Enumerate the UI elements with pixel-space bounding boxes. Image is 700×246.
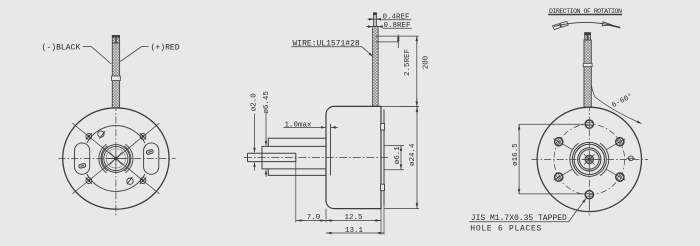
svg-text:7.0: 7.0: [307, 214, 321, 222]
dim 0.8REF leader: [366, 26, 382, 28]
svg-text:(+)RED: (+)RED: [151, 44, 180, 53]
outer circle top edge across wire: [112, 107, 120, 109]
svg-text:HOLE 6 PLACES: HOLE 6 PLACES: [470, 225, 542, 234]
svg-text:200: 200: [423, 55, 431, 69]
radial spoke upper-right: [607, 139, 626, 150]
hub bearing ring inner: [104, 146, 128, 170]
svg-text:WIRE:UL1571#28: WIRE:UL1571#28: [293, 40, 360, 49]
end bell back line: [383, 110, 385, 206]
label JIS underline: [469, 221, 568, 223]
svg-text:2.5REF: 2.5REF: [404, 49, 412, 76]
radial spoke lower-right: [607, 169, 626, 180]
header underline: [548, 14, 622, 16]
svg-text:ø6.1: ø6.1: [394, 146, 402, 165]
svg-text:13.1: 13.1: [345, 227, 364, 235]
dim 1.0max underline-leader: [284, 126, 319, 128]
right terminal stadium: [144, 143, 159, 174]
bottom hole centerline overshoot: [588, 200, 590, 210]
svg-text:1.0max: 1.0max: [285, 122, 313, 130]
shaft bottom line: [248, 161, 296, 163]
extension line wire bottom at can top: [400, 105, 419, 107]
extension line bushing: [295, 153, 297, 222]
back view outer circle: [537, 107, 641, 211]
hub ring inner: [580, 150, 600, 170]
label WIRE underline: [291, 46, 362, 48]
dim 6-60 arc: [592, 86, 642, 124]
crimp tab upper: [381, 124, 385, 131]
back view vertical centerline: [588, 104, 590, 218]
hub C-arc right inner: [124, 146, 130, 171]
screw top-right: [140, 133, 146, 139]
hub bore circle: [106, 149, 125, 168]
dim phi16.5 extension bottom: [519, 193, 585, 195]
back circle top edge across wire: [584, 106, 592, 108]
bearing boss front: [262, 146, 326, 169]
rotation arrow arc: [554, 22, 620, 27]
lead wire sleeve (front view): [112, 43, 119, 108]
dim 12.5 line: [326, 220, 381, 222]
dim 0.4REF leader: [368, 18, 381, 20]
hub C-arc left outer: [99, 144, 107, 172]
dim 0.4REF underline: [381, 19, 412, 21]
dim 2.5REF line: [397, 35, 399, 49]
dim 200 line: [416, 36, 418, 106]
extension line can front: [325, 209, 327, 223]
dim phi24.4 extension top: [381, 105, 419, 107]
wire tip black: [112, 36, 115, 44]
dim phi6.45 line: [265, 114, 267, 178]
extension line bell back: [383, 205, 385, 235]
tapped hole bottom: [585, 191, 593, 199]
svg-text:(-)BLACK: (-)BLACK: [42, 44, 81, 53]
svg-text:0.8REF: 0.8REF: [384, 22, 411, 30]
shaft knurl spokes: [582, 152, 597, 167]
radial spoke upper-left: [553, 139, 572, 150]
hub ring mid: [578, 148, 601, 171]
front view inner housing circle top arc: [87, 126, 145, 143]
side view wire bare tip: [374, 13, 377, 27]
label JIS leader: [569, 199, 586, 222]
vent hole lower (slashed): [127, 177, 133, 184]
tapped hole top: [585, 120, 593, 128]
tapped hole lower-left: [553, 171, 564, 182]
svg-text:ø16.5: ø16.5: [512, 143, 520, 166]
dim 13.1 line: [326, 232, 384, 234]
dim phi6.1 line: [400, 146, 402, 170]
svg-text:ø6.45: ø6.45: [263, 91, 271, 114]
hub bearing ring outer: [102, 145, 130, 173]
left terminal slot: [79, 163, 86, 168]
front view vertical centerline: [115, 104, 117, 216]
hub C-arc right: [600, 143, 609, 175]
front view diagonal centerline B: [72, 123, 159, 194]
front view diagonal centerline A: [72, 123, 159, 194]
hub ring outer: [572, 142, 606, 176]
dim 7.0 line: [296, 220, 326, 222]
screw bottom-left: [86, 177, 92, 183]
back wire tip 1: [585, 33, 588, 40]
front view horizontal centerline: [59, 158, 176, 160]
svg-text:12.5: 12.5: [344, 214, 363, 222]
screw top-left: [86, 133, 92, 139]
bolt circle (dash-dot): [554, 124, 625, 195]
shaft tip end: [247, 153, 249, 161]
side view lead wire sleeve: [373, 27, 379, 106]
dim phi2.0 line: [254, 114, 256, 171]
label RED leader: [120, 47, 148, 62]
extension line can back: [380, 209, 382, 235]
index hole right: [628, 156, 633, 161]
bearing flange front: [268, 138, 326, 175]
hub C-arc left: [570, 143, 579, 175]
side view horizontal centerline: [244, 157, 390, 159]
dim phi6.1 extension top: [384, 145, 404, 147]
dim phi24.4 extension bottom: [384, 208, 419, 210]
svg-text:ø24.4: ø24.4: [409, 143, 417, 166]
extension line B: [376, 41, 399, 43]
rotation arrow left ribbon: [553, 22, 569, 30]
dim 0.8REF underline: [383, 27, 412, 29]
wire tip red: [117, 36, 120, 44]
shaft center dot: [115, 157, 118, 160]
hub ring outer2: [574, 144, 604, 174]
bushing face line: [295, 153, 297, 161]
screw bottom-right: [140, 177, 146, 183]
back view horizontal centerline: [532, 158, 649, 160]
svg-text:DIRECTION OF ROTATION: DIRECTION OF ROTATION: [549, 8, 622, 15]
shaft end star spokes: [107, 150, 125, 168]
tapped hole upper-right: [614, 136, 625, 147]
dim phi6.1 extension bottom: [384, 169, 404, 171]
crimp tab lower: [381, 184, 385, 191]
hub C-arc right outer: [125, 144, 133, 172]
radial spoke lower-left: [553, 169, 572, 180]
label BLACK leader: [83, 47, 111, 65]
right terminal slot: [146, 149, 153, 154]
tapped hole upper-left: [553, 136, 564, 147]
extension line A (wire top): [376, 35, 419, 37]
tapped hole lower-right: [614, 171, 625, 182]
back view lead wire sleeve: [584, 40, 591, 107]
svg-text:ø2.0: ø2.0: [250, 93, 258, 112]
shaft top line: [248, 152, 296, 154]
svg-text:JIS M1.7X0.35 TAPPED: JIS M1.7X0.35 TAPPED: [471, 214, 567, 223]
wire sleeve band: [112, 76, 121, 81]
shaft cross-section: [585, 155, 594, 164]
motor can body: [326, 106, 381, 208]
left terminal stadium: [75, 143, 90, 174]
back wire tip 2: [588, 33, 591, 40]
front view motor outer circle: [63, 108, 169, 209]
dim phi16.5 line: [518, 124, 520, 194]
internal step line: [330, 124, 332, 175]
vent hole upper (slashed): [98, 131, 105, 139]
index hole centerline: [627, 157, 635, 159]
rotation arrow right tip: [602, 22, 621, 28]
dim phi16.5 extension top: [519, 123, 584, 125]
label WIRE leader: [362, 47, 373, 57]
back wire band: [583, 63, 592, 66]
front view inner housing circle bottom arc: [87, 174, 145, 191]
svg-text:0.4REF: 0.4REF: [383, 14, 410, 22]
dim phi24.4 line: [416, 106, 418, 208]
hub C-arc left inner: [101, 146, 107, 171]
